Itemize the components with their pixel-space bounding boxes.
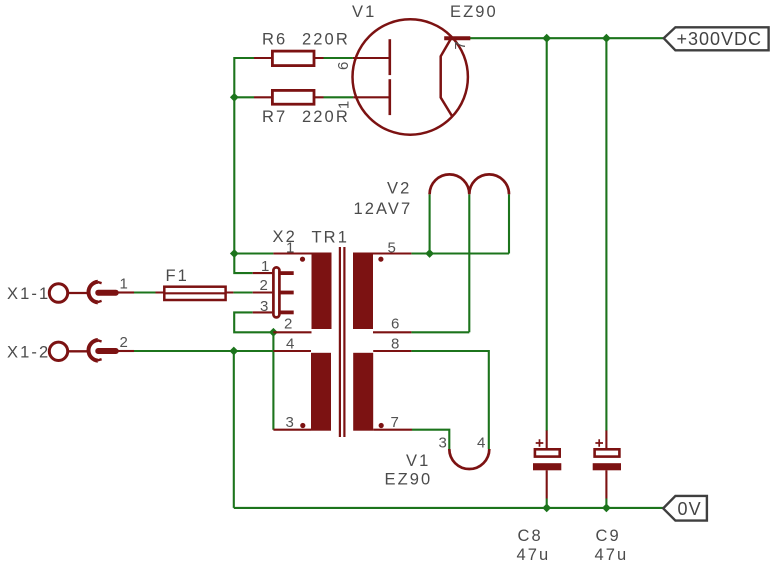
junction C9 top: [602, 34, 611, 43]
svg-text:7: 7: [391, 414, 399, 431]
svg-text:47u: 47u: [517, 546, 551, 564]
svg-text:7: 7: [452, 41, 469, 49]
wire C8 bottom: [546, 499, 548, 508]
X2 pin 3: [253, 298, 294, 315]
wire 0V rail: [234, 507, 663, 509]
TR1 primary winding top-left (pins 1-2): [273, 240, 331, 333]
svg-text:X1-2: X1-2: [7, 343, 50, 361]
capacitor C8: [517, 431, 562, 565]
svg-text:V2: V2: [387, 179, 411, 197]
svg-text:2: 2: [284, 315, 292, 332]
X2 pin 1: [253, 258, 294, 275]
wire R7 to V1 plate: [324, 96, 354, 98]
TR1 winding bottom-right (pins 8-7): [353, 336, 412, 431]
X2 body: [273, 267, 279, 317]
svg-text:+300VDC: +300VDC: [677, 29, 763, 49]
junction V2 heater pin: [425, 249, 434, 258]
TR1 winding bottom-left (pins 4-3): [273, 336, 331, 431]
svg-text:3: 3: [286, 414, 294, 431]
svg-text:12AV7: 12AV7: [354, 200, 413, 218]
svg-text:F1: F1: [166, 267, 189, 285]
wire X1-2 to 0V rail: [233, 351, 235, 508]
svg-text:EZ90: EZ90: [385, 471, 433, 489]
wire R7 left stub: [234, 96, 254, 98]
svg-text:8: 8: [391, 336, 399, 353]
wire C9 column top: [605, 38, 607, 431]
svg-text:EZ90: EZ90: [450, 3, 498, 21]
TR1 core: [340, 247, 345, 437]
X2 pin 2: [253, 277, 294, 294]
svg-text:TR1: TR1: [312, 229, 349, 247]
wire +300VDC rail: [470, 37, 664, 39]
wire TR1 pin6 row: [411, 331, 469, 333]
supply flag 0V: [663, 496, 707, 521]
svg-text:4: 4: [477, 435, 485, 452]
tube V1 anode pin 1: [335, 79, 390, 115]
junction X1-2: [229, 347, 238, 356]
connector X1-1: [7, 276, 134, 303]
supply flag +300VDC: [664, 27, 769, 50]
svg-text:R6: R6: [262, 31, 287, 49]
svg-text:6: 6: [335, 62, 352, 70]
svg-text:1: 1: [261, 258, 269, 275]
svg-text:220R: 220R: [302, 31, 350, 49]
svg-text:2: 2: [120, 334, 128, 351]
svg-text:C9: C9: [596, 527, 621, 545]
tube V1 envelope: [352, 3, 498, 135]
svg-text:220R: 220R: [302, 108, 350, 126]
wire TR1 pin5 row: [411, 252, 509, 254]
svg-text:C8: C8: [518, 527, 543, 545]
tube V1 heater coil: [385, 435, 490, 489]
svg-text:47u: 47u: [595, 546, 629, 564]
svg-text:3: 3: [439, 435, 447, 452]
svg-text:4: 4: [286, 336, 294, 353]
svg-text:0V: 0V: [678, 499, 702, 519]
svg-text:5: 5: [388, 240, 396, 257]
junction TR1 pin2: [269, 328, 278, 337]
wire V2 heater center tap: [468, 194, 470, 332]
wire V2 heater left leg: [429, 194, 431, 253]
svg-text:1: 1: [120, 276, 128, 293]
svg-text:R7: R7: [262, 108, 287, 126]
fuse F1: [156, 267, 234, 300]
wire F1 to X2 pin2: [233, 291, 252, 293]
wire X2 pin3 hook: [234, 312, 273, 332]
tube V1 cathode pin 7: [441, 38, 471, 116]
resistor R6: [254, 31, 350, 66]
svg-text:X1-1: X1-1: [7, 285, 50, 303]
wire R6 to V1 plate: [324, 57, 353, 59]
svg-text:V1: V1: [352, 3, 376, 21]
TR1 secondary winding top-right (pins 5-6): [353, 240, 411, 333]
tube V2 heater coil: [354, 174, 510, 217]
capacitor C9: [593, 431, 629, 565]
svg-text:2: 2: [260, 277, 268, 294]
wire X1-2 row: [134, 350, 273, 352]
wire TR1 pin7 to V1 heater pin3: [412, 430, 449, 449]
svg-text:V1: V1: [406, 452, 430, 470]
wire to TR1 pin1: [234, 252, 273, 254]
connector X2: [273, 228, 297, 246]
svg-text:X2: X2: [273, 228, 297, 246]
transformer TR1: [312, 229, 349, 247]
junction C8 bottom: [542, 504, 551, 513]
wire TR1 pin2 to pin3 vertical: [272, 332, 274, 429]
tube V1 anode pin 6: [335, 39, 390, 75]
wire V2 heater right leg: [508, 194, 510, 253]
junction TR1 pin1: [230, 249, 239, 258]
wire left bus R6/R7 to X2 pin1: [234, 58, 254, 273]
svg-text:3: 3: [260, 298, 268, 315]
svg-text:1: 1: [335, 101, 352, 109]
wire X1-1 to F1: [134, 291, 156, 293]
wire C9 bottom: [605, 499, 607, 508]
junction C8 top: [542, 34, 551, 43]
resistor R7: [254, 90, 350, 125]
junction R7 left: [230, 93, 239, 102]
svg-text:6: 6: [391, 315, 399, 332]
wire TR1 pin8 to V1 heater pin4: [411, 351, 488, 449]
junction C9 bottom: [602, 504, 611, 513]
wire C8 column top: [546, 38, 548, 431]
connector X1-2: [7, 334, 134, 361]
